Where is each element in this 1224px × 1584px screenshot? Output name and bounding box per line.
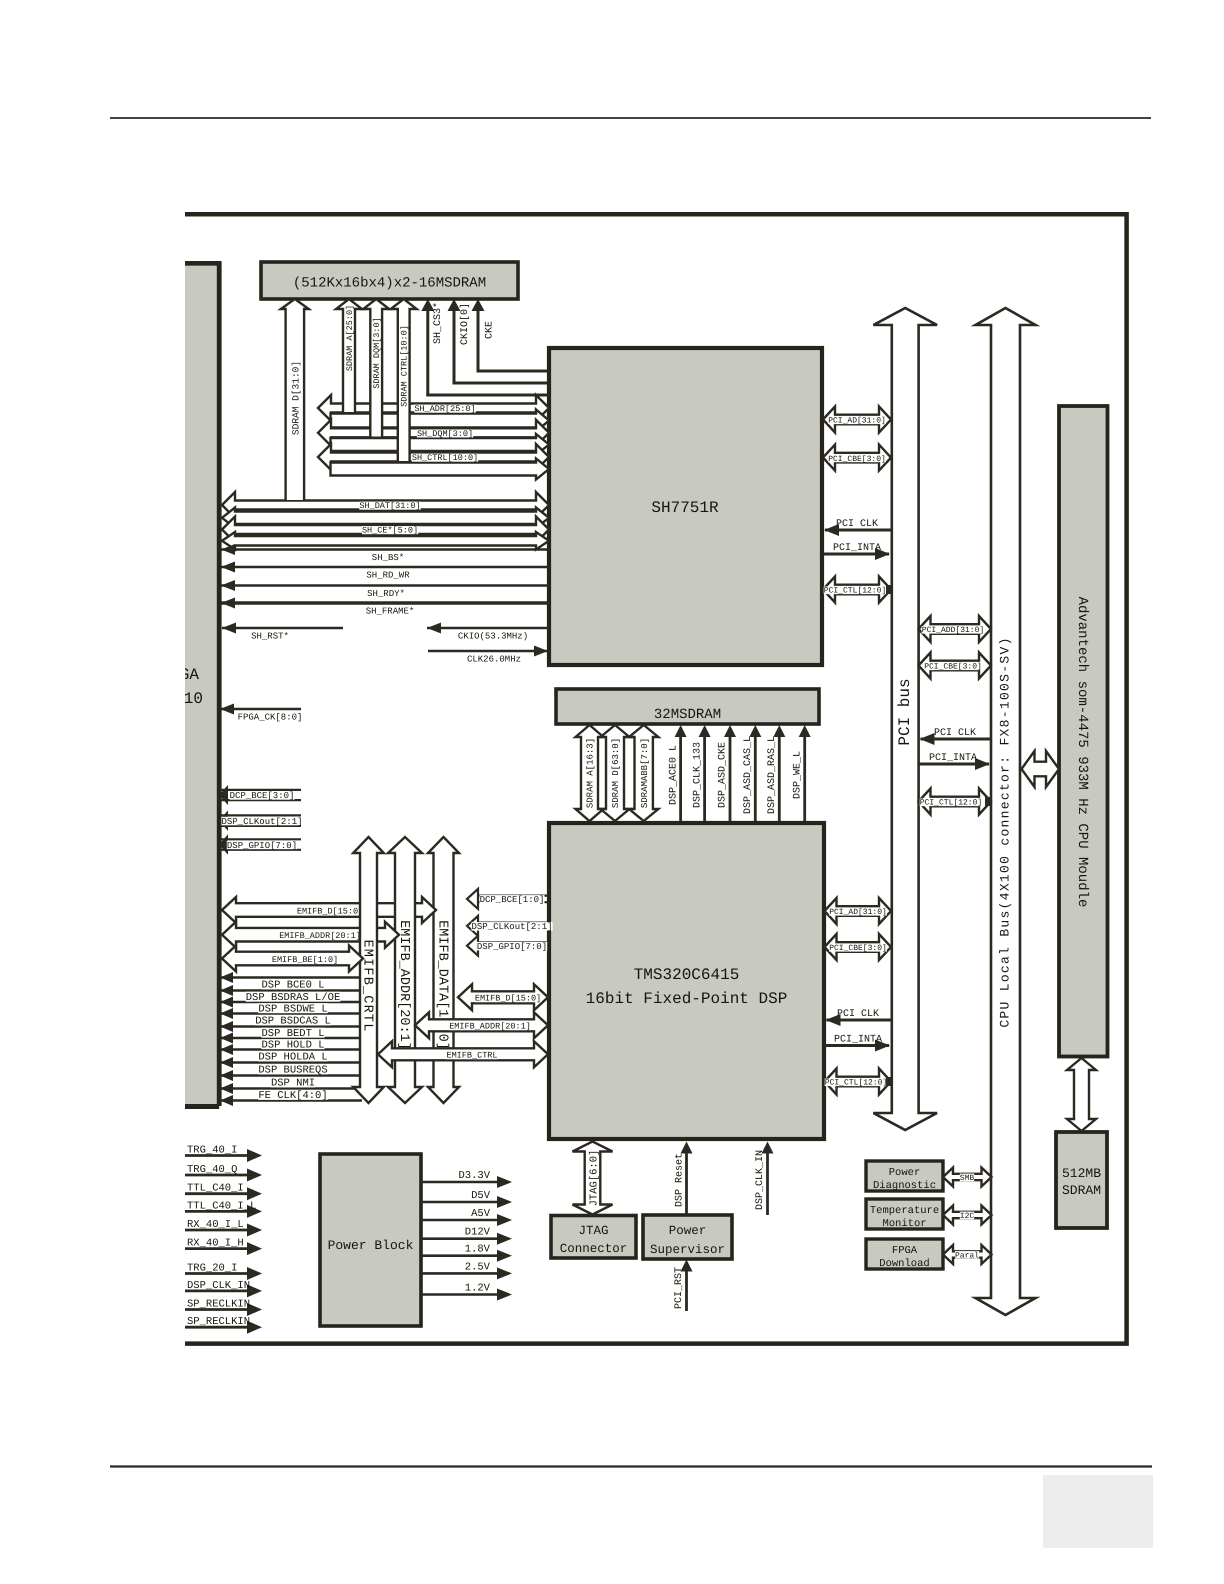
svg-text:FPGA: FPGA xyxy=(892,1245,918,1257)
wire DSP_GPIO[7:0] (FPGA) xyxy=(219,834,301,855)
wire PCI_RST xyxy=(674,1260,692,1312)
svg-text:DSP_CLKout[2:1]: DSP_CLKout[2:1] xyxy=(221,817,302,827)
svg-text:TRG_40_I: TRG_40_I xyxy=(187,1145,237,1157)
svg-text:DSP Reset: DSP Reset xyxy=(675,1153,686,1207)
svg-text:SH_CE*[5:0]: SH_CE*[5:0] xyxy=(362,526,418,536)
svg-text:EMIFB_ADDR[20:1]: EMIFB_ADDR[20:1] xyxy=(279,931,361,941)
svg-text:Temperature: Temperature xyxy=(870,1205,939,1217)
svg-text:RX_40_I_H: RX_40_I_H xyxy=(187,1238,244,1250)
svg-text:Power: Power xyxy=(889,1167,921,1179)
bus EMIFB_CRTL vertical xyxy=(353,837,384,1103)
svg-text:PCI CLK: PCI CLK xyxy=(836,519,878,530)
svg-text:SDRAM A[25:0]: SDRAM A[25:0] xyxy=(345,305,355,371)
svg-text:SH_FRAME*: SH_FRAME* xyxy=(366,607,415,617)
svg-text:DSP BCE0 L: DSP BCE0 L xyxy=(261,980,324,992)
svg-text:SP_RECLKIN: SP_RECLKIN xyxy=(187,1316,250,1328)
wire SH_FRAME* xyxy=(221,598,549,617)
bus SDRAM CTRL[10:0] vertical xyxy=(391,299,417,461)
svg-text:DSP_CLK_133: DSP_CLK_133 xyxy=(692,742,703,808)
svg-text:TMS320C6415: TMS320C6415 xyxy=(634,966,740,984)
PCI bus arrow xyxy=(873,308,937,1130)
svg-text:JTAG[6:0]: JTAG[6:0] xyxy=(588,1150,600,1207)
svg-text:1.8V: 1.8V xyxy=(465,1244,491,1256)
svg-text:DSP HOLDA L: DSP HOLDA L xyxy=(258,1052,327,1064)
wire SH_RD_WR xyxy=(221,562,549,581)
svg-text:SDRAM D[31:0]: SDRAM D[31:0] xyxy=(290,361,301,435)
wire CKIO(53.3MHz) xyxy=(427,623,549,642)
bus SH_CE*[5:0] xyxy=(222,517,549,550)
bus EMIFB_ADDR[20:1] (DSP) xyxy=(415,1012,548,1038)
wire DCP_BCE[1:0] (DSP) xyxy=(467,889,548,909)
svg-text:PCI_CTL[12:0]: PCI_CTL[12:0] xyxy=(920,799,982,808)
svg-text:DSP NMI: DSP NMI xyxy=(271,1078,315,1090)
wire SH_RST* xyxy=(222,623,343,642)
diagram frame (top/right/bottom) xyxy=(185,214,1127,1343)
svg-text:DSP_CLKout[2:1]: DSP_CLKout[2:1] xyxy=(471,922,552,932)
bus EMIFB_DATA[15:0] vertical xyxy=(428,837,459,1103)
svg-text:PCI_ADD[31:0]: PCI_ADD[31:0] xyxy=(922,626,984,635)
svg-text:CPU Local Bus(4X100 connector:: CPU Local Bus(4X100 connector: FX8-100S-… xyxy=(998,636,1013,1027)
svg-text:PCI CLK: PCI CLK xyxy=(934,728,976,739)
svg-text:DCP_BCE[3:0]: DCP_BCE[3:0] xyxy=(230,791,295,801)
svg-text:512MB: 512MB xyxy=(1062,1166,1101,1181)
svg-text:DSP_CLK_IN: DSP_CLK_IN xyxy=(187,1280,250,1292)
svg-text:DSP BSDRAS L/OE: DSP BSDRAS L/OE xyxy=(246,992,341,1004)
svg-text:DSP_ASD_CKE: DSP_ASD_CKE xyxy=(718,742,729,808)
svg-text:DSP BSDCAS L: DSP BSDCAS L xyxy=(255,1016,331,1028)
wire CLK26.0MHz xyxy=(428,646,548,665)
svg-text:FPGA_CK[8:0]: FPGA_CK[8:0] xyxy=(238,713,303,723)
svg-text:JTAG: JTAG xyxy=(578,1224,608,1238)
svg-text:FE CLK[4:0]: FE CLK[4:0] xyxy=(258,1090,327,1102)
link CPUbus-Advantech xyxy=(1022,751,1060,787)
block Power Block xyxy=(320,1154,421,1326)
bus SDRAM A[16:3] xyxy=(576,725,604,821)
svg-text:PCI_CBE[3:0]: PCI_CBE[3:0] xyxy=(924,663,982,672)
svg-text:PCI_CBE[3:0]: PCI_CBE[3:0] xyxy=(829,944,887,953)
svg-text:DSP_ASD_RAS_L: DSP_ASD_RAS_L xyxy=(767,736,778,814)
svg-text:2.5V: 2.5V xyxy=(465,1261,491,1273)
svg-text:EMIFB_D[15:0]: EMIFB_D[15:0] xyxy=(475,994,541,1004)
PCI arrows PCIbus-CPUbus xyxy=(919,616,993,815)
svg-text:EMIFB_D[15:0]: EMIFB_D[15:0] xyxy=(297,906,363,916)
svg-text:SH_RD_WR: SH_RD_WR xyxy=(366,571,410,581)
bus SH_DQM[3:0] xyxy=(318,420,549,455)
svg-text:DSP_WE_L: DSP_WE_L xyxy=(792,751,803,799)
svg-text:PCI_INTA: PCI_INTA xyxy=(833,543,881,554)
svg-text:SDRAMABB[7:0]: SDRAMABB[7:0] xyxy=(640,738,650,808)
svg-text:PCI_AD[31:0]: PCI_AD[31:0] xyxy=(828,417,886,426)
svg-text:SDRAM CTRL[10:0]: SDRAM CTRL[10:0] xyxy=(400,325,410,407)
wire SH_CS3* xyxy=(421,299,549,397)
svg-text:Connector: Connector xyxy=(560,1242,628,1256)
svg-text:DSP_GPIO[7:0]: DSP_GPIO[7:0] xyxy=(477,942,547,952)
bus SDRAM D[31:0] vertical xyxy=(281,299,309,500)
wire DSP_CLKout[2:1] (FPGA) xyxy=(219,810,303,831)
svg-text:CKIO[0]: CKIO[0] xyxy=(459,303,471,345)
svg-text:SMB: SMB xyxy=(960,1174,975,1183)
svg-text:SDRAM DQM[3:0]: SDRAM DQM[3:0] xyxy=(372,317,382,388)
link Paral xyxy=(943,1245,992,1264)
svg-text:A5V: A5V xyxy=(471,1208,491,1220)
svg-text:PCI_CTL[12:0]: PCI_CTL[12:0] xyxy=(825,1079,887,1088)
wires DSP control signals to FPGA xyxy=(220,972,362,1106)
svg-text:DSP_CLK_IN: DSP_CLK_IN xyxy=(755,1150,766,1210)
svg-text:D3.3V: D3.3V xyxy=(458,1170,490,1182)
svg-text:SH_RDY*: SH_RDY* xyxy=(367,589,405,599)
block Advantech CPU module xyxy=(1059,406,1108,1057)
svg-text:10: 10 xyxy=(184,690,203,708)
svg-text:(512Kx16bx4)x2-16MSDRAM: (512Kx16bx4)x2-16MSDRAM xyxy=(293,276,486,292)
wire DSP_GPIO[7:0] (DSP) xyxy=(467,936,548,956)
bus SH_ADR[25:0] xyxy=(318,395,549,432)
svg-text:PCI_RST: PCI_RST xyxy=(674,1267,685,1309)
svg-text:TRG_40_Q: TRG_40_Q xyxy=(187,1164,237,1176)
svg-text:SDRAM: SDRAM xyxy=(1062,1183,1101,1198)
link Advantech-512MB xyxy=(1067,1058,1096,1131)
svg-text:TTL_C40_I_L: TTL_C40_I_L xyxy=(187,1200,256,1212)
block Temperature Monitor xyxy=(866,1199,943,1230)
svg-text:PCI_INTA: PCI_INTA xyxy=(929,753,977,764)
wires external signals xyxy=(185,1145,262,1334)
PCI arrows SH7751R xyxy=(823,407,893,603)
bus SDRAM DQM[3:0] vertical xyxy=(363,299,389,437)
block Power Diagnostic xyxy=(866,1161,943,1192)
svg-text:PCI_INTA: PCI_INTA xyxy=(834,1035,882,1046)
svg-text:SH_DAT[31:0]: SH_DAT[31:0] xyxy=(359,501,420,511)
svg-text:TTL_C40_I: TTL_C40_I xyxy=(187,1183,244,1195)
wire CKE xyxy=(472,299,550,373)
svg-text:DSP BUSREQS: DSP BUSREQS xyxy=(258,1065,327,1077)
svg-text:CKIO(53.3MHz): CKIO(53.3MHz) xyxy=(458,632,528,642)
block (512Kx16bx4)x2-16MSDRAM xyxy=(261,262,518,299)
block FPGA Download xyxy=(866,1239,943,1270)
svg-text:DSP HOLD L: DSP HOLD L xyxy=(261,1039,324,1051)
svg-text:SP_RECLKIN: SP_RECLKIN xyxy=(187,1299,250,1311)
svg-text:Supervisor: Supervisor xyxy=(650,1243,725,1257)
link SMB xyxy=(943,1168,992,1187)
svg-text:SDRAM D[63:0]: SDRAM D[63:0] xyxy=(611,738,621,808)
block JTAG Connector xyxy=(551,1216,636,1259)
FPGA block (clipped at page edge) xyxy=(180,261,219,1107)
svg-text:DSP_GPIO[7:0]: DSP_GPIO[7:0] xyxy=(227,841,297,851)
svg-text:SH_CTRL[10:0]: SH_CTRL[10:0] xyxy=(412,453,478,463)
svg-text:DSP BEDT L: DSP BEDT L xyxy=(261,1028,324,1040)
svg-text:Monitor: Monitor xyxy=(882,1218,926,1230)
svg-text:SH7751R: SH7751R xyxy=(651,499,719,517)
block TMS320C6415 DSP xyxy=(549,823,824,1139)
svg-text:D12V: D12V xyxy=(465,1227,491,1239)
svg-text:PCI_AD[31:0]: PCI_AD[31:0] xyxy=(829,908,887,917)
svg-text:I2C: I2C xyxy=(960,1212,975,1221)
PCI arrows TMS320 xyxy=(825,898,894,1095)
footer gray box xyxy=(1043,1475,1153,1548)
svg-text:Diagnostic: Diagnostic xyxy=(873,1180,936,1192)
svg-text:DSP BSDWE L: DSP BSDWE L xyxy=(258,1003,327,1015)
bus SDRAM D[63:0] xyxy=(601,725,630,821)
svg-text:PCI CLK: PCI CLK xyxy=(837,1009,879,1020)
svg-text:CKE: CKE xyxy=(485,321,496,339)
wire DCP_BCE[3:0] (FPGA) xyxy=(219,785,301,805)
svg-text:EMIFB_ADDR[20:1]: EMIFB_ADDR[20:1] xyxy=(396,920,411,1050)
bus SDRAM A[25:0] vertical xyxy=(336,299,362,412)
svg-text:Paral: Paral xyxy=(955,1251,979,1260)
svg-text:Power: Power xyxy=(669,1224,707,1238)
block 32MSDRAM xyxy=(556,689,819,724)
wire SH_BS* xyxy=(221,544,549,563)
svg-text:SH_DQM[3:0]: SH_DQM[3:0] xyxy=(417,429,473,439)
svg-text:DSP_ASD_CAS_L: DSP_ASD_CAS_L xyxy=(743,736,754,814)
bus SH_CTRL[10:0] xyxy=(318,444,549,480)
block SH7751R xyxy=(549,348,822,665)
wire DSP Reset xyxy=(675,1142,693,1215)
svg-text:SH_ADR[25:0]: SH_ADR[25:0] xyxy=(414,404,475,414)
svg-text:PCI bus: PCI bus xyxy=(896,678,914,745)
svg-text:SH_RST*: SH_RST* xyxy=(251,632,289,642)
svg-text:Download: Download xyxy=(879,1258,929,1270)
svg-text:1.2V: 1.2V xyxy=(465,1283,491,1295)
block 512MB SDRAM xyxy=(1056,1132,1107,1228)
svg-text:RX_40_I_L: RX_40_I_L xyxy=(187,1219,244,1231)
svg-text:16bit Fixed-Point DSP: 16bit Fixed-Point DSP xyxy=(586,990,788,1008)
wire FPGA_CK[8:0] xyxy=(220,704,302,723)
bus SH_DAT[31:0] xyxy=(222,492,549,528)
link I2C xyxy=(943,1206,992,1225)
CPU Local Bus arrow xyxy=(976,308,1036,1315)
svg-text:Advantech som-4475 933M Hz CPU: Advantech som-4475 933M Hz CPU Moudle xyxy=(1074,597,1090,908)
svg-text:EMIFB_BE[1:0]: EMIFB_BE[1:0] xyxy=(272,955,338,965)
svg-text:SDRAM A[16:3]: SDRAM A[16:3] xyxy=(586,738,596,808)
bottom rule xyxy=(110,1465,1152,1467)
svg-text:32MSDRAM: 32MSDRAM xyxy=(654,707,721,723)
svg-text:SH_BS*: SH_BS* xyxy=(372,553,404,563)
bus EMIFB_ADDR[20:1] (FPGA) xyxy=(222,922,399,948)
bus EMIFB_BE[1:0] (FPGA) xyxy=(222,946,363,972)
svg-text:EMIFB_CRTL: EMIFB_CRTL xyxy=(360,939,375,1032)
svg-text:PCI_CTL[12:0]: PCI_CTL[12:0] xyxy=(824,587,886,596)
block Power Supervisor xyxy=(643,1215,732,1259)
wire DSP_CLKout[2:1] (DSP) xyxy=(467,916,553,936)
svg-text:CLK26.0MHz: CLK26.0MHz xyxy=(467,655,521,665)
svg-text:PCI_CBE[3:0]: PCI_CBE[3:0] xyxy=(828,455,886,464)
bus JTAG[6:0] xyxy=(573,1142,613,1215)
svg-text:TRG_20_I: TRG_20_I xyxy=(187,1263,237,1275)
bus SDRAMABB[7:0] xyxy=(629,725,658,821)
wire CKIO[0] xyxy=(448,299,550,385)
svg-text:D5V: D5V xyxy=(471,1190,491,1202)
bus EMIFB_D[15:0] (FPGA) xyxy=(222,897,436,923)
svg-text:EMIFB_ADDR[20:1]: EMIFB_ADDR[20:1] xyxy=(449,1022,531,1032)
bus EMIFB_CTRL (DSP) xyxy=(378,1041,548,1067)
wire DSP_CLK_IN (DSP) xyxy=(755,1142,773,1216)
bus EMIFB_D[15:0] (DSP) xyxy=(458,984,548,1010)
wires DSP SDRAM control xyxy=(668,725,810,821)
svg-text:DCP_BCE[1:0]: DCP_BCE[1:0] xyxy=(480,895,545,905)
svg-text:DSP_ACE0 L: DSP_ACE0 L xyxy=(668,745,679,805)
bus EMIFB_ADDR[20:1] vertical xyxy=(388,837,422,1103)
svg-text:Power Block: Power Block xyxy=(328,1238,414,1253)
svg-text:GA: GA xyxy=(180,666,200,684)
wire SH_RDY* xyxy=(221,580,549,599)
top rule xyxy=(110,117,1151,119)
wires power outputs xyxy=(421,1170,512,1301)
svg-text:SH_CS3*: SH_CS3* xyxy=(432,302,444,344)
svg-text:EMIFB_CTRL: EMIFB_CTRL xyxy=(446,1051,497,1061)
